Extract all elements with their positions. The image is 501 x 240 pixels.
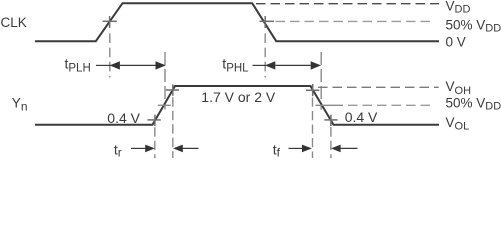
tick cross Yn falling 1.7V	[306, 84, 319, 96]
svg-text:0 V: 0 V	[446, 35, 466, 50]
tr arrows	[131, 145, 199, 153]
tick cross Yn rising 0.4V	[148, 115, 161, 126]
50% VDD dashed level line (top)	[276, 20, 434, 22]
vertical dashed at Yn falling 50%	[320, 52, 322, 110]
svg-text:tf: tf	[273, 141, 281, 158]
svg-text:1.7 V or 2 V: 1.7 V or 2 V	[201, 89, 276, 105]
50% VDD dashed level line (bottom)	[316, 104, 434, 106]
tick bar Yn rising 50%	[158, 104, 171, 106]
CLK waveform	[35, 3, 439, 41]
VOH dashed level line	[318, 86, 439, 88]
VDD dashed level line	[256, 3, 439, 5]
vertical dashed from Yn rising 0.4V	[154, 127, 156, 158]
svg-text:VOL: VOL	[446, 115, 470, 133]
tick cross CLK falling 50%	[260, 16, 275, 28]
svg-text:50% VDD: 50% VDD	[446, 96, 501, 113]
vertical dashed from Yn falling 1.7V	[312, 98, 314, 159]
tf arrows	[289, 145, 358, 153]
svg-text:0.4 V: 0.4 V	[345, 109, 378, 125]
tick cross Yn rising 1.7V	[166, 84, 179, 96]
svg-text:Yn: Yn	[12, 96, 28, 114]
vertical dashed from CLK rising edge	[109, 33, 111, 77]
tick cross CLK rising 50%	[103, 16, 117, 28]
tPLH arrow	[96, 61, 166, 69]
svg-text:0.4 V: 0.4 V	[107, 110, 140, 126]
tPHL arrow	[253, 61, 322, 69]
vertical dashed at Yn rising 50%	[164, 52, 166, 110]
svg-text:VOH: VOH	[446, 79, 472, 97]
svg-text:VDD: VDD	[446, 0, 471, 16]
svg-text:tPLH: tPLH	[65, 55, 91, 74]
tick cross Yn falling 0.4V	[324, 115, 337, 126]
svg-text:50% VDD: 50% VDD	[446, 18, 501, 35]
vertical dashed from CLK falling edge	[264, 33, 266, 77]
Yn waveform	[35, 86, 439, 125]
svg-text:CLK: CLK	[1, 15, 27, 30]
vertical dashed from Yn rising 1.7V	[172, 97, 174, 158]
svg-text:tr: tr	[114, 141, 122, 158]
svg-text:tPHL: tPHL	[222, 55, 249, 74]
vertical dashed from Yn falling 0.4V	[330, 127, 332, 158]
